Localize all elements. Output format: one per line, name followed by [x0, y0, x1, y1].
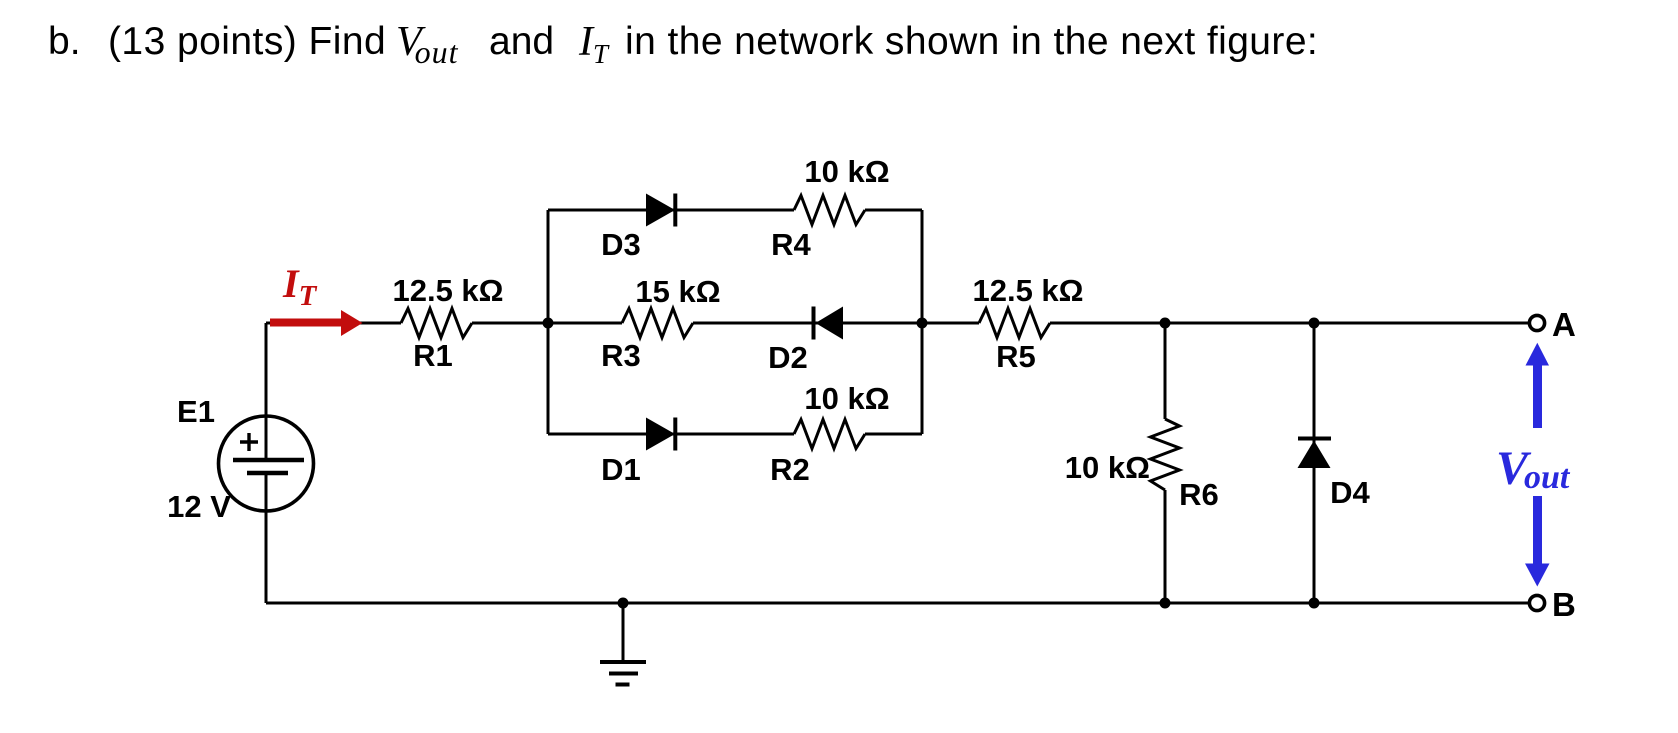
svg-text:10 kΩ: 10 kΩ: [804, 381, 889, 416]
svg-text:D3: D3: [601, 227, 641, 262]
svg-text:R3: R3: [601, 338, 641, 373]
svg-text:R2: R2: [770, 452, 810, 487]
svg-text:B: B: [1552, 586, 1576, 623]
svg-text:R5: R5: [996, 339, 1036, 374]
svg-text:Vout: Vout: [1496, 442, 1571, 496]
svg-text:12 V: 12 V: [167, 489, 231, 524]
svg-text:E1: E1: [177, 394, 215, 429]
svg-text:IT: IT: [282, 261, 318, 312]
svg-text:10 kΩ: 10 kΩ: [1065, 450, 1150, 485]
svg-text:10 kΩ: 10 kΩ: [804, 154, 889, 189]
svg-text:D4: D4: [1330, 475, 1370, 510]
svg-text:15 kΩ: 15 kΩ: [635, 274, 720, 309]
svg-text:D1: D1: [601, 452, 641, 487]
svg-text:12.5 kΩ: 12.5 kΩ: [392, 273, 503, 308]
svg-text:A: A: [1552, 306, 1576, 343]
svg-text:12.5 kΩ: 12.5 kΩ: [972, 273, 1083, 308]
svg-text:R6: R6: [1179, 477, 1219, 512]
svg-text:D2: D2: [768, 340, 808, 375]
svg-text:R1: R1: [413, 338, 453, 373]
svg-text:R4: R4: [771, 227, 811, 262]
